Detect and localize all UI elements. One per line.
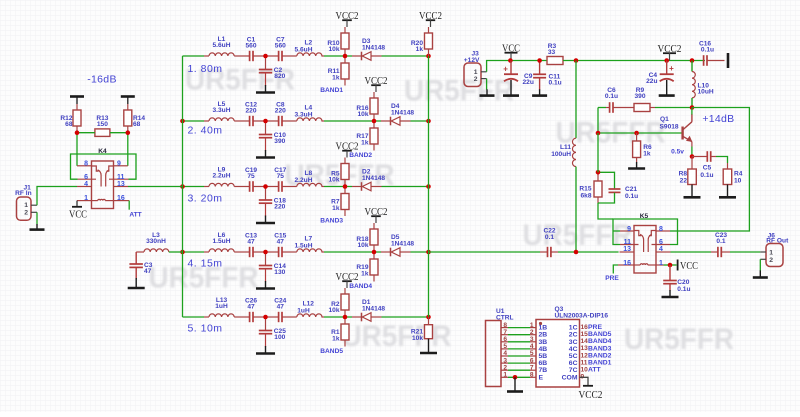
svg-text:VCC: VCC bbox=[680, 260, 698, 272]
ground of J6 bbox=[759, 270, 761, 277]
relay K4 bbox=[77, 148, 129, 209]
wire C22 to K5 bbox=[558, 251, 619, 253]
junction right bus bbox=[426, 54, 431, 59]
junction R15 top bbox=[596, 170, 601, 175]
svg-text:+14dB: +14dB bbox=[702, 113, 734, 125]
resistor R21 bbox=[411, 317, 433, 342]
junction L10 top bbox=[690, 58, 695, 63]
junction C25 node bbox=[263, 315, 268, 320]
svg-text:3.3uH: 3.3uH bbox=[295, 111, 313, 118]
svg-text:820: 820 bbox=[274, 73, 285, 80]
junction C10 node bbox=[263, 119, 268, 124]
capacitor C19 bbox=[245, 167, 257, 192]
svg-text:UR5FFR: UR5FFR bbox=[523, 219, 633, 252]
resistor R7 bbox=[331, 187, 349, 217]
svg-text:2.2uH: 2.2uH bbox=[213, 173, 231, 180]
svg-text:1k: 1k bbox=[361, 270, 369, 277]
svg-text:6B: 6B bbox=[539, 360, 548, 367]
junction left bus bbox=[180, 184, 185, 189]
wire L11 to output row bbox=[575, 167, 577, 252]
svg-text:22u: 22u bbox=[523, 79, 534, 86]
power VCC at K4 pin 1 bbox=[69, 201, 87, 221]
power VCC2 above R10 bbox=[336, 10, 359, 33]
wire K4 contact loop bbox=[71, 154, 137, 179]
wire C6 corner to base row bbox=[597, 108, 599, 134]
svg-text:6: 6 bbox=[659, 239, 663, 246]
svg-text:220: 220 bbox=[245, 107, 256, 114]
svg-text:BAND3: BAND3 bbox=[588, 345, 612, 352]
capacitor C9 electrolytic bbox=[503, 61, 534, 87]
svg-text:6: 6 bbox=[84, 174, 88, 181]
svg-text:10k: 10k bbox=[412, 335, 423, 342]
IC Q3 ULN2003A-DIP16 bbox=[530, 306, 609, 387]
resistor R8 bbox=[679, 157, 697, 185]
svg-text:2.2uH: 2.2uH bbox=[295, 177, 313, 184]
capacitor C8 bbox=[275, 102, 286, 127]
svg-text:1k: 1k bbox=[332, 335, 340, 342]
resistor R11 bbox=[328, 56, 349, 86]
resistor R14 bbox=[124, 104, 146, 133]
svg-text:1k: 1k bbox=[416, 46, 424, 53]
svg-text:0.1u: 0.1u bbox=[700, 172, 713, 179]
connector J1 RF In bbox=[15, 185, 37, 221]
svg-text:390: 390 bbox=[274, 138, 285, 145]
svg-text:1N4148: 1N4148 bbox=[391, 110, 414, 117]
svg-text:BAND1: BAND1 bbox=[320, 87, 343, 94]
svg-text:L11: L11 bbox=[560, 144, 571, 151]
svg-text:2. 40m: 2. 40m bbox=[187, 125, 222, 137]
wire K4 pin13 to left bus bbox=[128, 186, 183, 188]
svg-text:0.1u: 0.1u bbox=[549, 80, 562, 87]
resistor R17 bbox=[356, 121, 378, 151]
ground of J1 bbox=[36, 224, 38, 230]
ground above R14 bbox=[121, 97, 135, 105]
svg-text:1uH: 1uH bbox=[215, 303, 228, 310]
svg-text:Q1: Q1 bbox=[660, 116, 669, 123]
svg-text:7C: 7C bbox=[569, 367, 578, 374]
svg-text:47: 47 bbox=[247, 303, 255, 310]
svg-text:5.6uH: 5.6uH bbox=[213, 42, 231, 49]
svg-text:0.1: 0.1 bbox=[716, 238, 725, 245]
junction C18 node bbox=[263, 184, 268, 189]
svg-text:10uH: 10uH bbox=[698, 89, 714, 96]
resistor R15 bbox=[579, 172, 602, 203]
transistor Q1 S9018 bbox=[660, 114, 693, 142]
svg-text:11: 11 bbox=[581, 359, 588, 366]
junction band3 node bbox=[343, 184, 348, 189]
svg-text:C5: C5 bbox=[703, 164, 712, 171]
junction amp feed bbox=[574, 58, 579, 63]
svg-text:BAND4: BAND4 bbox=[349, 283, 372, 290]
inductor L3 bbox=[136, 232, 182, 252]
power VCC at K5 coil bbox=[678, 260, 698, 272]
svg-text:3.3uH: 3.3uH bbox=[213, 107, 231, 114]
inductor L9 bbox=[209, 167, 234, 187]
ground of C14 bbox=[256, 281, 275, 289]
svg-text:1k: 1k bbox=[643, 150, 651, 157]
ground above R12 bbox=[70, 97, 84, 105]
resistor R20 bbox=[411, 33, 433, 56]
svg-text:220: 220 bbox=[275, 107, 286, 114]
svg-text:0.1u: 0.1u bbox=[701, 47, 714, 54]
wire J3 pin2 to ground bbox=[486, 79, 488, 90]
svg-text:10k: 10k bbox=[328, 177, 339, 184]
svg-text:560: 560 bbox=[245, 42, 256, 49]
diode D3 bbox=[362, 38, 386, 61]
ground of C9 bbox=[510, 80, 512, 96]
svg-text:10k: 10k bbox=[328, 46, 339, 53]
svg-text:47: 47 bbox=[144, 268, 152, 275]
capacitor C7 bbox=[275, 37, 286, 62]
svg-text:1: 1 bbox=[474, 69, 478, 76]
capacitor C1 bbox=[245, 37, 256, 62]
svg-text:0.5v: 0.5v bbox=[671, 148, 684, 155]
svg-text:UR5FFR: UR5FFR bbox=[342, 320, 452, 353]
svg-text:R4: R4 bbox=[734, 170, 743, 177]
svg-text:4B: 4B bbox=[539, 346, 548, 353]
svg-text:8: 8 bbox=[659, 226, 663, 233]
junction VCC2 tick bbox=[664, 58, 669, 63]
svg-text:VCC: VCC bbox=[69, 208, 87, 220]
svg-text:+: + bbox=[503, 65, 508, 74]
junction right bus bbox=[426, 250, 431, 255]
wire band5 row bbox=[183, 316, 429, 318]
wire attenuator bbox=[77, 133, 128, 166]
svg-text:+: + bbox=[669, 64, 674, 73]
junction VCC tick bbox=[508, 58, 513, 63]
svg-text:BAND4: BAND4 bbox=[588, 338, 612, 345]
ground of C2 bbox=[256, 85, 275, 93]
ground of C4 bbox=[666, 80, 668, 96]
capacitor C2 shunt bbox=[259, 56, 286, 86]
inductor L12 bbox=[297, 301, 322, 317]
svg-text:ULN2003A-DIP16: ULN2003A-DIP16 bbox=[555, 313, 609, 320]
wire J1 pin2 to ground bbox=[36, 212, 38, 224]
capacitor C17 bbox=[274, 167, 286, 192]
svg-text:ATT: ATT bbox=[129, 211, 141, 218]
junction right bus bbox=[426, 315, 431, 320]
svg-text:100: 100 bbox=[274, 334, 285, 341]
net PRE at K5 pin 16 bbox=[605, 265, 619, 282]
resistor R1 bbox=[331, 317, 349, 347]
svg-text:1k: 1k bbox=[361, 139, 369, 146]
wire collector to node bbox=[691, 108, 693, 115]
ground of C3 bbox=[135, 278, 137, 288]
svg-text:UR5FFR: UR5FFR bbox=[624, 323, 734, 356]
capacitor C22 bbox=[540, 227, 558, 257]
wires U1 to Q3 bbox=[508, 328, 530, 378]
svg-text:E: E bbox=[539, 374, 544, 381]
svg-text:13: 13 bbox=[623, 246, 631, 253]
svg-text:47: 47 bbox=[247, 238, 255, 245]
ground of C18 bbox=[256, 216, 275, 224]
watermark UR5FFR bbox=[404, 75, 514, 108]
resistor R3 bbox=[547, 43, 563, 64]
wire band3 row bbox=[183, 186, 429, 188]
svg-text:1uH: 1uH bbox=[297, 307, 310, 314]
svg-text:130: 130 bbox=[274, 269, 285, 276]
capacitor C10 shunt bbox=[259, 121, 286, 151]
inductor L1 bbox=[209, 36, 234, 56]
junction left bus bbox=[180, 119, 185, 124]
junction left bus bbox=[180, 250, 185, 255]
svg-text:3. 20m: 3. 20m bbox=[187, 193, 222, 205]
capacitor C21 bbox=[598, 172, 638, 203]
watermark UR5FFR bbox=[285, 159, 395, 192]
capacitor C20 bbox=[663, 265, 690, 293]
junction R12 node bbox=[75, 130, 80, 135]
svg-text:4: 4 bbox=[84, 181, 88, 188]
capacitor C25 shunt bbox=[259, 317, 286, 347]
capacitor C12 bbox=[245, 102, 257, 127]
svg-text:5B: 5B bbox=[539, 353, 548, 360]
svg-text:150: 150 bbox=[97, 121, 108, 128]
svg-text:16: 16 bbox=[117, 195, 125, 202]
ground of R6 bbox=[636, 162, 638, 169]
power VCC2 above R18 bbox=[365, 206, 388, 229]
inductor L8 bbox=[295, 170, 322, 186]
watermark UR5FFR bbox=[342, 320, 452, 353]
wire amp input vertical bbox=[597, 133, 599, 172]
ground of J3 bbox=[486, 89, 488, 95]
svg-text:1k: 1k bbox=[332, 74, 340, 81]
svg-text:11: 11 bbox=[117, 174, 125, 181]
svg-text:1N4148: 1N4148 bbox=[362, 45, 385, 52]
wire K5 contact loop bbox=[613, 219, 678, 245]
ground of C10 bbox=[256, 150, 275, 158]
svg-text:2B: 2B bbox=[539, 332, 548, 339]
svg-text:1N4148: 1N4148 bbox=[362, 306, 385, 313]
svg-text:R8: R8 bbox=[679, 170, 688, 177]
resistor R10 bbox=[327, 33, 349, 56]
power VCC2 above R5 bbox=[336, 140, 359, 163]
svg-text:9: 9 bbox=[117, 161, 121, 168]
svg-text:8: 8 bbox=[84, 161, 88, 168]
inductor L2 bbox=[295, 40, 322, 56]
svg-text:ATT: ATT bbox=[588, 367, 602, 374]
capacitor C26 bbox=[245, 298, 257, 323]
svg-text:R15: R15 bbox=[579, 185, 591, 192]
svg-text:PRE: PRE bbox=[588, 324, 602, 331]
svg-text:C20: C20 bbox=[677, 279, 689, 286]
junction R14 node bbox=[126, 130, 131, 135]
svg-text:0.1u: 0.1u bbox=[625, 193, 638, 200]
watermark UR5FFR bbox=[185, 64, 295, 97]
svg-text:5. 10m: 5. 10m bbox=[187, 323, 222, 335]
svg-text:10k: 10k bbox=[328, 307, 339, 314]
inductor L11 bbox=[551, 138, 576, 166]
svg-text:1C: 1C bbox=[569, 325, 578, 332]
ground of C16 rotated bbox=[727, 53, 730, 68]
svg-text:330nH: 330nH bbox=[146, 238, 166, 245]
svg-text:1: 1 bbox=[769, 249, 773, 256]
svg-text:10k: 10k bbox=[357, 242, 368, 249]
svg-text:390: 390 bbox=[634, 93, 645, 100]
svg-text:2C: 2C bbox=[569, 332, 578, 339]
capacitor C6 bbox=[598, 87, 634, 113]
ground of E row bbox=[514, 377, 516, 391]
watermark UR5FFR bbox=[149, 262, 259, 295]
wire preamp bypass bbox=[677, 108, 749, 232]
svg-text:560: 560 bbox=[275, 42, 286, 49]
resistor R13 bbox=[95, 115, 110, 136]
junction band4 node bbox=[372, 250, 377, 255]
svg-text:0.1: 0.1 bbox=[545, 234, 554, 241]
svg-text:220: 220 bbox=[274, 204, 285, 211]
resistor R19 bbox=[356, 252, 378, 282]
connector J3 +12V bbox=[464, 50, 487, 86]
svg-text:22: 22 bbox=[680, 177, 688, 184]
junction emitter node bbox=[690, 154, 695, 159]
capacitor C23 bbox=[711, 232, 730, 257]
resistor R5 bbox=[328, 164, 349, 187]
wire K5 pin1 to VCC bbox=[664, 264, 677, 266]
power VCC2 at rail bbox=[658, 43, 682, 61]
wire J3 pin1 to VCC rail bbox=[487, 61, 547, 72]
inductor L10 bbox=[692, 61, 714, 108]
capacitor C5 bbox=[692, 151, 728, 179]
junction right bus bbox=[426, 119, 431, 124]
junction R6 tap bbox=[634, 131, 639, 136]
capacitor C15 bbox=[274, 233, 286, 258]
svg-text:S9018: S9018 bbox=[660, 124, 679, 131]
svg-text:47: 47 bbox=[277, 303, 285, 310]
power VCC2 above R20 bbox=[419, 10, 442, 33]
power VCC2 above R16 bbox=[365, 75, 388, 98]
svg-text:10: 10 bbox=[734, 177, 742, 184]
svg-text:1: 1 bbox=[24, 202, 28, 209]
wire band2 row bbox=[183, 120, 429, 122]
svg-text:PRE: PRE bbox=[605, 275, 619, 282]
diode D1 bbox=[362, 299, 386, 322]
watermark UR5FFR bbox=[523, 219, 633, 252]
svg-text:BAND3: BAND3 bbox=[320, 217, 343, 224]
junction collector node bbox=[690, 105, 695, 110]
capacitor C13 bbox=[245, 233, 257, 258]
inductor L5 bbox=[209, 101, 234, 121]
svg-text:BAND2: BAND2 bbox=[588, 352, 612, 359]
wire output row left bbox=[429, 251, 541, 253]
junction K5 coil node bbox=[668, 263, 673, 268]
inductor L4 bbox=[295, 105, 322, 121]
inductor L7 bbox=[295, 236, 322, 252]
svg-text:5.6uH: 5.6uH bbox=[295, 46, 313, 53]
ground of C25 bbox=[256, 346, 275, 354]
svg-text:BAND1: BAND1 bbox=[588, 360, 612, 367]
svg-text:3B: 3B bbox=[539, 339, 548, 346]
wire left bus bbox=[182, 56, 184, 317]
svg-text:16: 16 bbox=[623, 260, 631, 267]
svg-text:1: 1 bbox=[84, 195, 88, 202]
diode D5 bbox=[391, 234, 415, 256]
capacitor C3 bbox=[129, 252, 152, 279]
svg-text:1N4148: 1N4148 bbox=[362, 175, 385, 182]
svg-text:7B: 7B bbox=[539, 367, 548, 374]
svg-text:1.5uH: 1.5uH bbox=[295, 242, 313, 249]
svg-text:2: 2 bbox=[769, 257, 773, 264]
svg-text:3C: 3C bbox=[569, 339, 578, 346]
svg-text:1. 80m: 1. 80m bbox=[187, 63, 222, 75]
junction right bus bbox=[426, 184, 431, 189]
junction E row bbox=[513, 375, 518, 380]
junction band2 node bbox=[372, 119, 377, 124]
ground of C11 bbox=[539, 89, 541, 95]
junction C11 tap bbox=[537, 58, 542, 63]
svg-text:VCC2: VCC2 bbox=[579, 389, 603, 401]
wire R3 to VCC2 rail bbox=[563, 60, 705, 62]
net ATT at K4 pin 16 bbox=[129, 201, 141, 219]
svg-text:0.1u: 0.1u bbox=[677, 286, 690, 293]
capacitor C14 shunt bbox=[259, 252, 286, 282]
resistor R6 bbox=[633, 133, 652, 163]
svg-text:9: 9 bbox=[627, 226, 631, 233]
svg-text:1B: 1B bbox=[539, 325, 548, 332]
svg-text:-16dB: -16dB bbox=[87, 74, 117, 86]
junction band1 node bbox=[343, 54, 348, 59]
svg-text:75: 75 bbox=[247, 173, 255, 180]
junction C14 node bbox=[263, 250, 268, 255]
junction base row tee bbox=[596, 131, 601, 136]
capacitor C18 shunt bbox=[259, 187, 286, 217]
svg-text:BAND5: BAND5 bbox=[588, 331, 612, 338]
svg-text:11: 11 bbox=[624, 239, 632, 246]
svg-text:0.1u: 0.1u bbox=[605, 93, 618, 100]
svg-text:100uH: 100uH bbox=[551, 151, 571, 158]
svg-text:68: 68 bbox=[65, 121, 73, 128]
svg-text:75: 75 bbox=[277, 173, 285, 180]
wire J1 pin1 to K4 bbox=[37, 187, 77, 206]
connector U1 CTRL bbox=[486, 308, 514, 387]
ground of R8 bbox=[691, 185, 693, 198]
wire J6 pin2 to ground bbox=[759, 259, 761, 270]
svg-text:6k8: 6k8 bbox=[580, 192, 591, 199]
svg-text:13: 13 bbox=[117, 181, 125, 188]
capacitor C11 bbox=[533, 61, 562, 90]
svg-text:4. 15m: 4. 15m bbox=[187, 258, 222, 270]
wire C23 to J6 bbox=[730, 251, 760, 253]
watermark UR5FFR bbox=[556, 117, 666, 150]
junction amp tap bbox=[574, 250, 579, 255]
power VCC2 at Q3 COM bbox=[579, 377, 603, 401]
wire base row bbox=[598, 132, 682, 134]
svg-text:BAND5: BAND5 bbox=[320, 348, 343, 355]
svg-text:RF In: RF In bbox=[15, 190, 31, 197]
svg-text:BAND2: BAND2 bbox=[349, 152, 372, 159]
wire K5 pin4 to C23 bbox=[671, 251, 712, 253]
power VCC at rail bbox=[502, 42, 520, 60]
inductor L13 bbox=[209, 297, 234, 317]
svg-text:68: 68 bbox=[133, 121, 141, 128]
junction C2 node bbox=[263, 54, 268, 59]
wire band4 row bbox=[183, 251, 429, 253]
power VCC2 above R2 bbox=[336, 271, 359, 294]
watermark UR5FFR bbox=[624, 323, 734, 356]
svg-text:2: 2 bbox=[24, 209, 28, 216]
diode D4 bbox=[391, 103, 415, 126]
net labels Q3 outputs bbox=[588, 324, 612, 374]
svg-text:1.5uH: 1.5uH bbox=[213, 238, 231, 245]
wire R15 bottom to K5 bbox=[598, 203, 613, 219]
svg-text:10k: 10k bbox=[357, 111, 368, 118]
svg-text:5C: 5C bbox=[569, 353, 578, 360]
resistor R4 bbox=[723, 169, 743, 185]
svg-text:4C: 4C bbox=[569, 346, 578, 353]
capacitor C4 electrolytic bbox=[646, 61, 674, 86]
capacitor C16 bbox=[699, 40, 725, 66]
wire amp feed down to L11 bbox=[575, 61, 577, 139]
resistor R18 bbox=[356, 229, 378, 252]
resistor R2 bbox=[328, 294, 349, 317]
